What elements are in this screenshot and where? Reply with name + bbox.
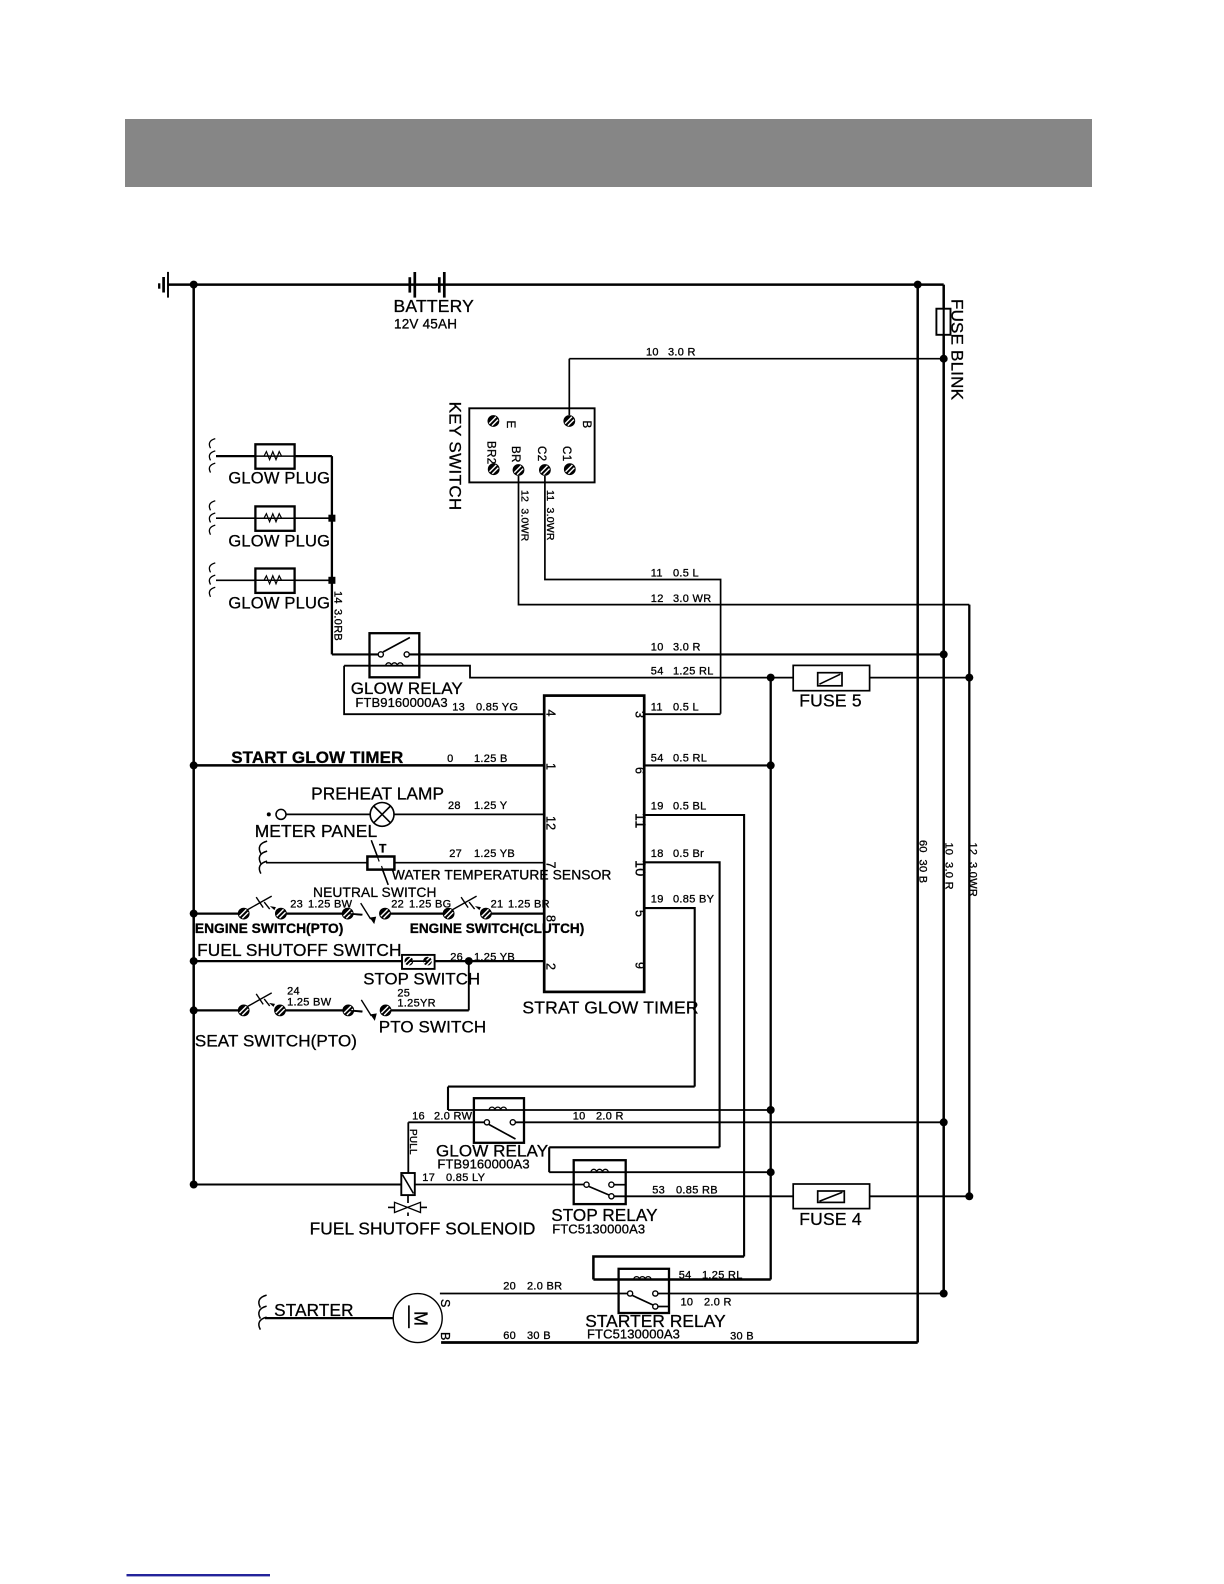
svg-text:10: 10 <box>651 642 664 654</box>
svg-text:PTO SWITCH: PTO SWITCH <box>379 1018 486 1037</box>
svg-text:3.0 R: 3.0 R <box>673 642 701 654</box>
svg-text:GLOW PLUG: GLOW PLUG <box>228 533 330 551</box>
svg-text:3.0 WR: 3.0 WR <box>673 593 711 605</box>
svg-text:FUSE 5: FUSE 5 <box>799 691 861 711</box>
svg-text:22: 22 <box>391 899 404 911</box>
svg-text:BR: BR <box>509 446 521 463</box>
svg-text:T: T <box>379 842 387 856</box>
svg-text:10 3.0 R: 10 3.0 R <box>943 843 955 890</box>
svg-text:10: 10 <box>681 1297 694 1309</box>
svg-text:3.0 R: 3.0 R <box>668 347 696 359</box>
svg-text:BATTERY: BATTERY <box>394 296 475 316</box>
svg-text:0.5 Br: 0.5 Br <box>673 848 704 860</box>
svg-text:1.25 BR: 1.25 BR <box>508 899 550 911</box>
svg-text:FTB9160000A3: FTB9160000A3 <box>437 1157 529 1172</box>
svg-text:12V 45AH: 12V 45AH <box>394 317 457 332</box>
svg-text:4: 4 <box>544 710 558 717</box>
svg-text:1.25 YB: 1.25 YB <box>474 848 515 860</box>
svg-text:C2: C2 <box>535 446 547 462</box>
svg-text:14: 14 <box>332 591 344 604</box>
svg-text:1.25 BW: 1.25 BW <box>287 997 332 1009</box>
svg-text:12 3.0WR: 12 3.0WR <box>967 843 979 898</box>
svg-text:STARTER: STARTER <box>274 1301 354 1320</box>
svg-text:0.5 L: 0.5 L <box>673 568 699 580</box>
svg-text:54: 54 <box>679 1270 692 1282</box>
svg-text:B: B <box>438 1332 452 1341</box>
svg-text:2.0 R: 2.0 R <box>596 1111 624 1123</box>
svg-text:1.25 RL: 1.25 RL <box>702 1270 743 1282</box>
svg-text:12: 12 <box>651 593 664 605</box>
svg-text:BR2: BR2 <box>485 441 497 465</box>
svg-text:FUEL SHUTOFF SWITCH: FUEL SHUTOFF SWITCH <box>197 940 401 960</box>
svg-text:60: 60 <box>503 1330 516 1342</box>
svg-text:28: 28 <box>448 800 461 812</box>
svg-text:30 B: 30 B <box>730 1331 754 1343</box>
svg-text:0.5 L: 0.5 L <box>673 702 699 714</box>
svg-text:WATER TEMPERATURE SENSOR: WATER TEMPERATURE SENSOR <box>392 868 612 883</box>
svg-text:1.25 B: 1.25 B <box>474 753 508 765</box>
svg-text:0.85 LY: 0.85 LY <box>446 1172 486 1184</box>
svg-text:12 3.0WR: 12 3.0WR <box>519 490 531 542</box>
svg-text:FUEL SHUTOFF SOLENOID: FUEL SHUTOFF SOLENOID <box>310 1219 536 1239</box>
svg-text:1.25YR: 1.25YR <box>397 998 436 1010</box>
svg-text:FUSE 4: FUSE 4 <box>799 1209 862 1229</box>
svg-text:GLOW PLUG: GLOW PLUG <box>228 595 330 613</box>
svg-text:FTC5130000A3: FTC5130000A3 <box>552 1222 645 1237</box>
svg-text:1: 1 <box>544 763 558 770</box>
svg-text:3.0RB: 3.0RB <box>332 609 344 641</box>
svg-text:30 B: 30 B <box>527 1330 551 1342</box>
svg-text:19: 19 <box>651 801 664 813</box>
svg-text:0.5 BL: 0.5 BL <box>673 801 707 813</box>
svg-text:S: S <box>438 1299 452 1308</box>
svg-text:0: 0 <box>447 753 453 765</box>
svg-text:1.25 BW: 1.25 BW <box>308 899 353 911</box>
svg-text:9: 9 <box>633 962 647 969</box>
svg-text:12: 12 <box>544 816 558 830</box>
svg-text:STOP SWITCH: STOP SWITCH <box>363 970 480 989</box>
svg-text:54: 54 <box>651 753 664 765</box>
svg-text:2.0 BR: 2.0 BR <box>527 1281 562 1293</box>
svg-text:FTB9160000A3: FTB9160000A3 <box>355 695 447 710</box>
svg-text:10: 10 <box>573 1111 586 1123</box>
svg-text:1.25 RL: 1.25 RL <box>673 666 714 678</box>
svg-text:ENGINE SWITCH(PTO): ENGINE SWITCH(PTO) <box>195 921 343 936</box>
svg-text:6: 6 <box>633 767 647 774</box>
svg-text:11: 11 <box>651 702 663 714</box>
svg-text:STRAT GLOW TIMER: STRAT GLOW TIMER <box>522 998 698 1018</box>
svg-text:KEY SWITCH: KEY SWITCH <box>446 402 465 511</box>
svg-text:B: B <box>580 421 592 429</box>
svg-text:27: 27 <box>449 848 462 860</box>
svg-text:23: 23 <box>290 899 303 911</box>
svg-text:26: 26 <box>450 952 463 964</box>
svg-text:11 3.0WR: 11 3.0WR <box>544 490 556 541</box>
svg-text:M: M <box>411 1311 431 1326</box>
svg-text:0.85 RB: 0.85 RB <box>676 1185 718 1197</box>
svg-text:0.5 RL: 0.5 RL <box>673 753 707 765</box>
svg-text:2.0 R: 2.0 R <box>704 1297 732 1309</box>
svg-text:METER PANEL: METER PANEL <box>255 821 378 841</box>
svg-text:54: 54 <box>651 666 664 678</box>
svg-text:10: 10 <box>646 347 659 359</box>
svg-text:0.85 BY: 0.85 BY <box>673 894 715 906</box>
svg-text:E: E <box>504 421 516 429</box>
svg-text:FUSE BLINK: FUSE BLINK <box>948 299 967 401</box>
svg-text:FTC5130000A3: FTC5130000A3 <box>587 1327 680 1342</box>
svg-text:19: 19 <box>651 894 664 906</box>
svg-text:PREHEAT LAMP: PREHEAT LAMP <box>311 784 444 804</box>
svg-text:1.25 BG: 1.25 BG <box>409 899 451 911</box>
svg-text:20: 20 <box>503 1281 516 1293</box>
svg-text:0.85 YG: 0.85 YG <box>476 702 518 714</box>
svg-text:1.25 Y: 1.25 Y <box>474 800 508 812</box>
svg-text:2: 2 <box>544 963 558 970</box>
svg-text:16: 16 <box>412 1111 425 1123</box>
svg-text:18: 18 <box>651 848 664 860</box>
svg-text:13: 13 <box>452 702 465 714</box>
svg-text:11: 11 <box>651 568 663 580</box>
svg-text:5: 5 <box>633 910 647 917</box>
svg-text:1.25 YB: 1.25 YB <box>474 952 515 964</box>
svg-text:START GLOW TIMER: START GLOW TIMER <box>231 748 403 767</box>
svg-text:60 30 B: 60 30 B <box>917 840 929 883</box>
svg-text:17: 17 <box>422 1172 435 1184</box>
svg-text:21: 21 <box>491 899 504 911</box>
svg-text:SEAT SWITCH(PTO): SEAT SWITCH(PTO) <box>195 1032 357 1051</box>
svg-text:ENGINE SWITCH(CLUTCH): ENGINE SWITCH(CLUTCH) <box>410 921 584 936</box>
svg-text:GLOW PLUG: GLOW PLUG <box>228 470 330 488</box>
svg-text:53: 53 <box>652 1185 665 1197</box>
svg-text:2.0 RW: 2.0 RW <box>434 1111 473 1123</box>
svg-text:C1: C1 <box>560 446 572 462</box>
